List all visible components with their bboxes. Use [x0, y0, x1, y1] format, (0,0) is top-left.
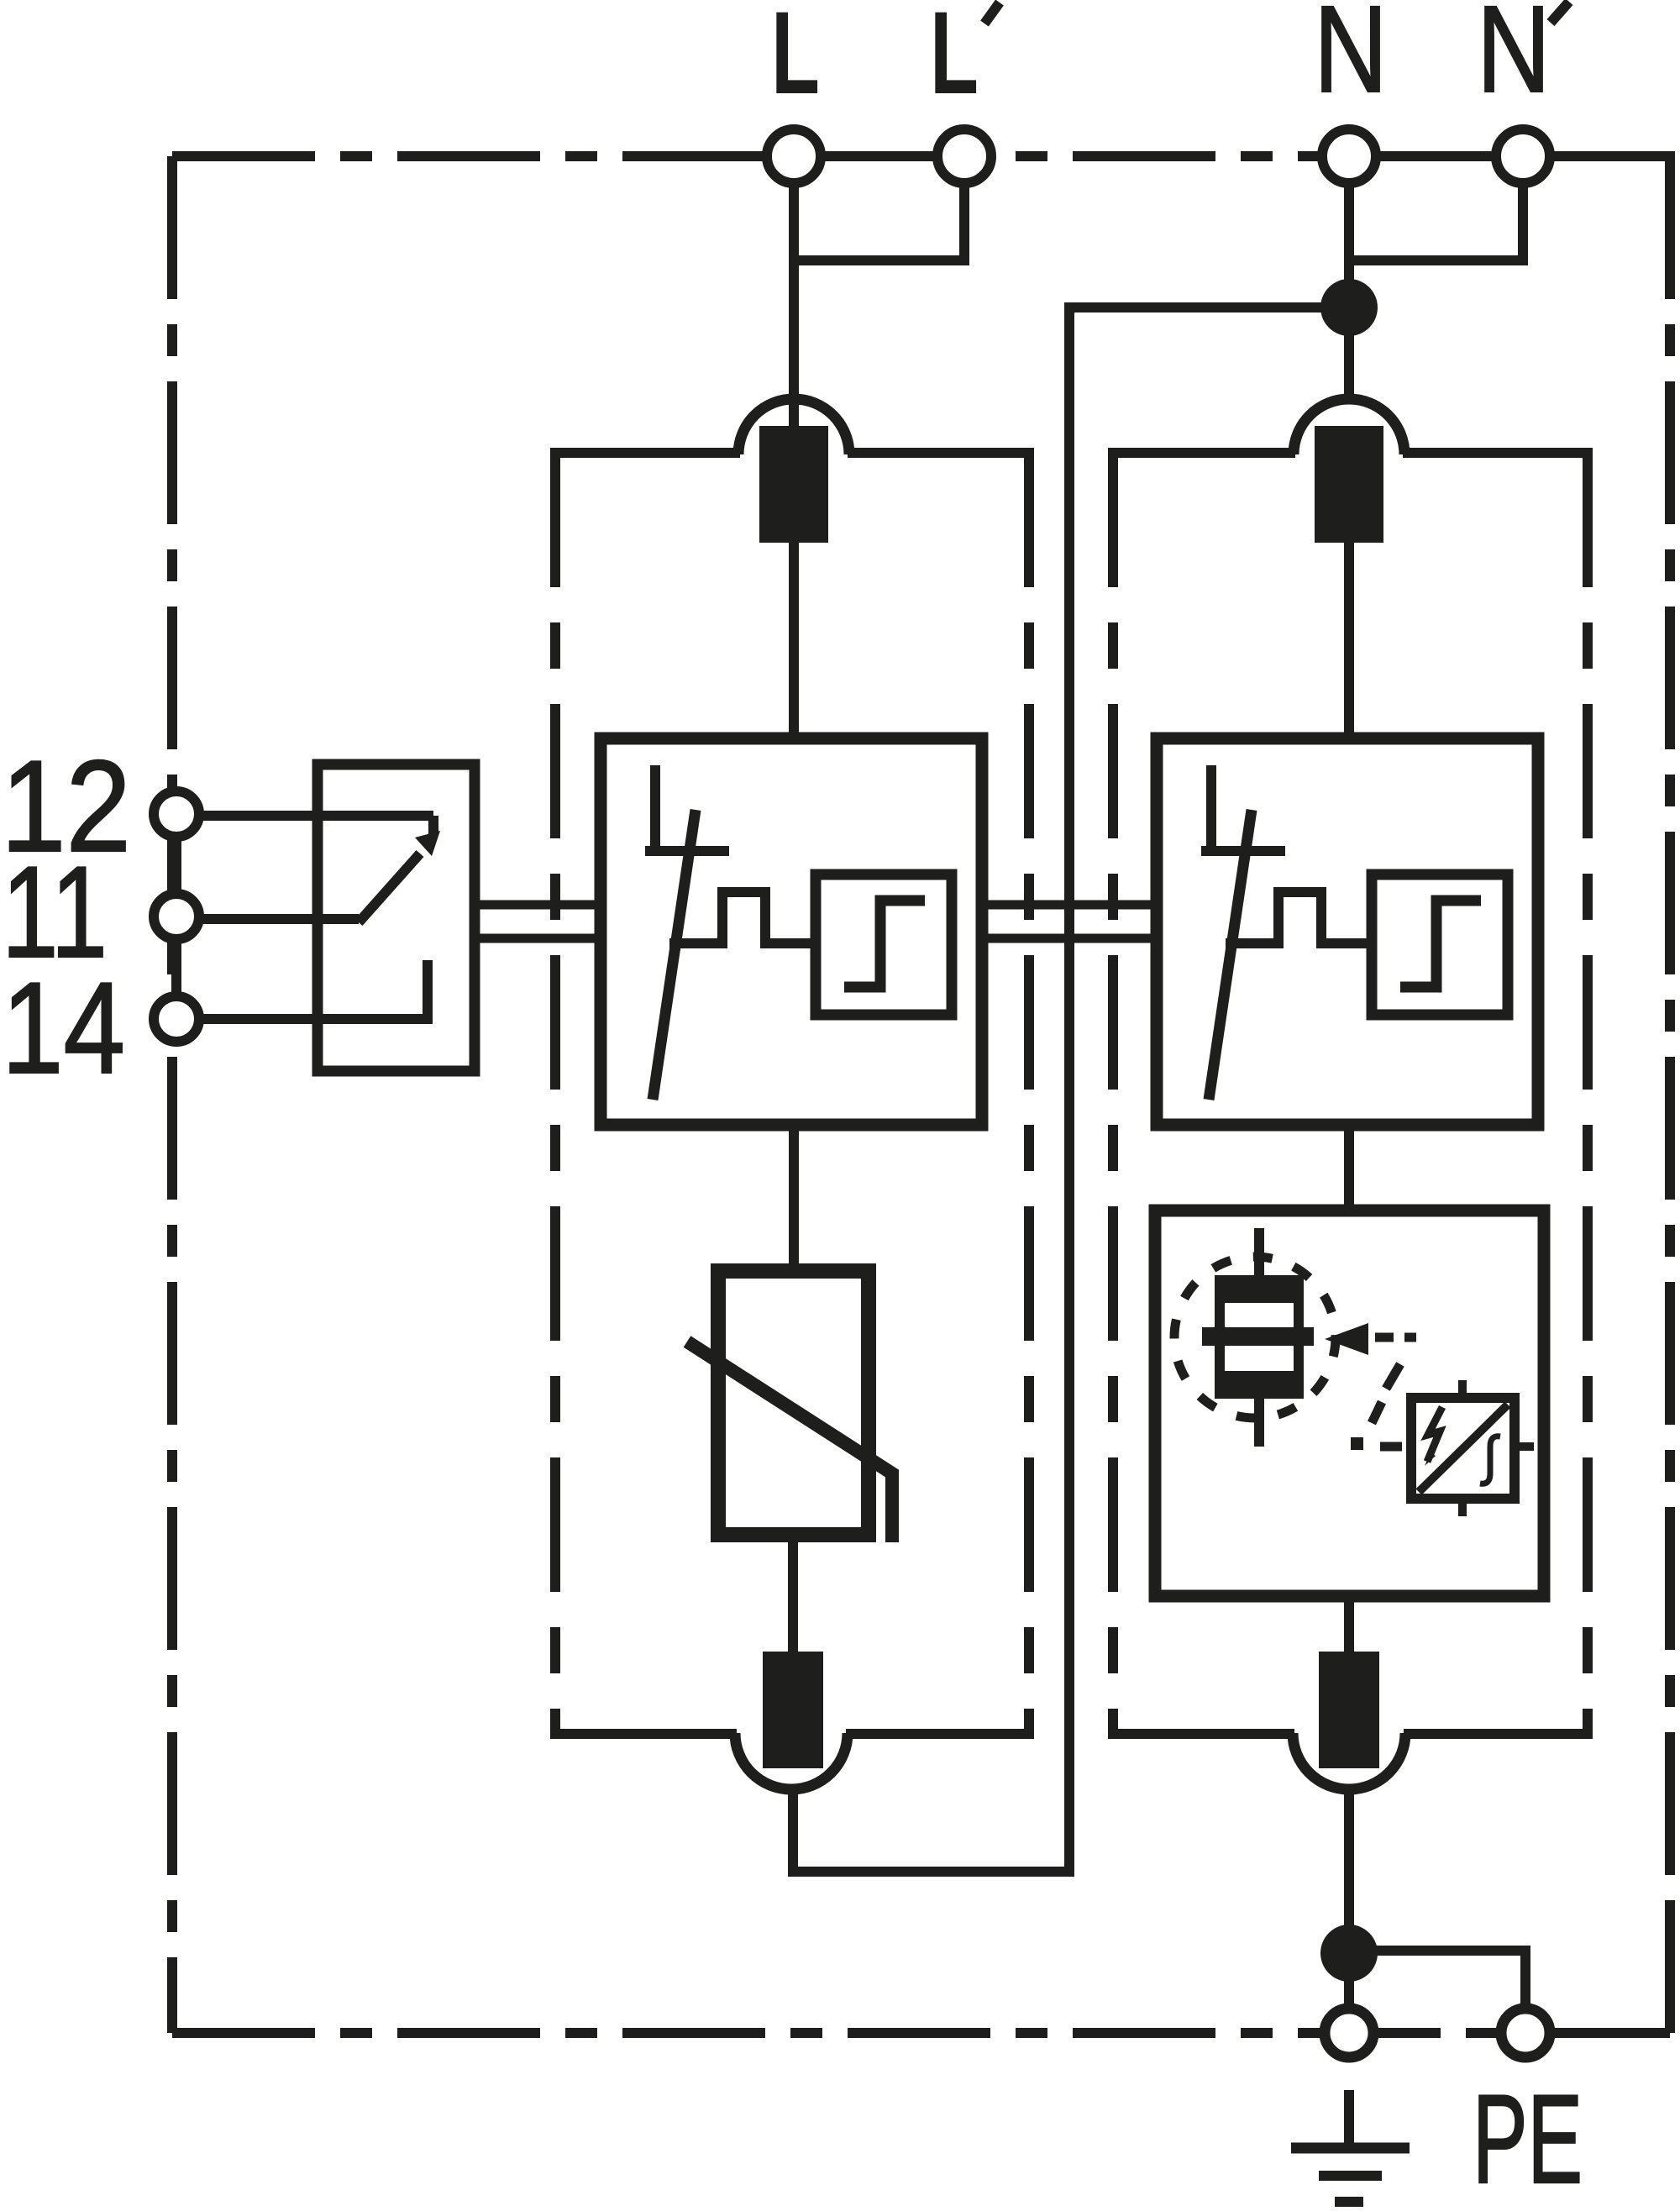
trigger circuit box: [1411, 1380, 1534, 1516]
label 12: [1, 733, 131, 879]
wire bottom contact to PE node: [1344, 1789, 1354, 1957]
right disconnector fixed lead: [1206, 765, 1216, 855]
right plug contact arc bottom: [1293, 1733, 1405, 1789]
terminal N: [1322, 129, 1376, 183]
terminal 14: [154, 996, 199, 1042]
right trigger element box: [1372, 874, 1508, 1015]
right disconnector blade: [1209, 810, 1252, 1100]
svg-text:L: L: [930, 0, 979, 118]
wire left module bottom drop: [788, 1789, 798, 1877]
right plug contact bar top: [1315, 426, 1383, 543]
wire N' bridge: [1349, 156, 1523, 260]
label L': [930, 0, 1000, 118]
terminal L: [767, 129, 821, 183]
link 11-14: [171, 943, 181, 992]
trigger arrow: [1325, 1323, 1368, 1355]
right plug contact arc top: [1294, 399, 1404, 454]
node N junction dot: [1320, 279, 1378, 336]
left trigger element box: [816, 874, 952, 1015]
label N: [1314, 0, 1388, 118]
svg-text:14: 14: [2, 955, 125, 1100]
wire dot to PE terminal: [1344, 1953, 1354, 2009]
trigger dashed path: [1351, 1337, 1416, 1450]
terminal N': [1496, 129, 1550, 183]
wire right rect to switch box: [1344, 538, 1354, 743]
right trigger step glyph: [1400, 901, 1481, 987]
wire spark gap box to bottom contact: [1344, 1596, 1354, 1657]
wire dot to PE' terminal: [1349, 1951, 1525, 2009]
wire L' bridge: [794, 156, 964, 260]
terminal L': [937, 129, 991, 183]
right disconnector tick: [1201, 846, 1285, 856]
left disconnector blade: [653, 810, 696, 1100]
changeover blade arrowhead: [415, 831, 440, 856]
terminal PE ground: [1325, 2009, 1373, 2057]
left trip linkage staircase: [669, 892, 819, 943]
svg-text:L: L: [771, 0, 820, 118]
wire mid vertical: [1064, 302, 1074, 1872]
terminal 12: [154, 791, 199, 837]
label N': [1477, 0, 1569, 118]
label PE: [1473, 2068, 1583, 2209]
wire switch box to varistor: [789, 1125, 799, 1276]
ground symbol: [1291, 2090, 1410, 2202]
right module box: [1108, 453, 1593, 1734]
wire terminal 12: [203, 816, 433, 835]
left module box: [550, 453, 1034, 1734]
enclosure dash-dot border (device outline): [172, 156, 1670, 2033]
wire switch box to spark gap box: [1344, 1125, 1354, 1216]
label 14: [2, 955, 125, 1100]
varistor body: [718, 1271, 869, 1535]
wire left rect to switch box: [789, 538, 799, 743]
changeover contact box: [318, 764, 475, 1071]
left plug contact arc bottom: [735, 1733, 848, 1789]
wire top solid segments on border: [819, 151, 1670, 2033]
left trigger step glyph: [844, 901, 925, 987]
left disconnector tick: [645, 846, 729, 856]
wire varistor to bottom contact: [788, 1535, 798, 1657]
wire terminal 14: [203, 1014, 428, 1024]
link 12-11: [171, 841, 181, 890]
gas discharge tube dashed circle: [1174, 1257, 1336, 1418]
node PE junction dot: [1320, 1925, 1378, 1982]
label 11: [2, 839, 108, 985]
linkage left box to right box: [982, 905, 1157, 938]
linkage contact to left box: [475, 905, 601, 938]
wire terminal 11: [203, 914, 359, 924]
terminal PE': [1501, 2009, 1550, 2057]
label L: [771, 0, 820, 118]
svg-text:PE: PE: [1473, 2068, 1583, 2209]
thermal disconnector box left: [601, 738, 982, 1125]
trigger box impulse glyph: [1480, 1436, 1500, 1484]
left disconnector fixed lead: [650, 765, 660, 855]
svg-text:N: N: [1477, 0, 1551, 118]
trigger box lightning glyph: [1425, 1407, 1442, 1466]
gas discharge tube: [1202, 1228, 1314, 1447]
svg-text:N: N: [1314, 0, 1388, 118]
wire L drop: [789, 156, 799, 430]
spark gap module box: [1155, 1211, 1544, 1596]
right trip linkage staircase: [1226, 892, 1375, 943]
left plug contact bar top: [759, 426, 828, 543]
terminal 11: [154, 894, 199, 939]
changeover blade: [359, 853, 420, 922]
left plug contact bar bottom: [763, 1652, 823, 1768]
wire junction to mid: [1069, 302, 1349, 312]
left plug contact arc top: [738, 399, 849, 454]
wire bottom horizontal to left module: [793, 1867, 1074, 1877]
thermal disconnector box right: [1157, 738, 1538, 1125]
varistor strike: [687, 1342, 892, 1542]
wire N drop: [1344, 156, 1354, 402]
contact 14 fixed bracket: [423, 960, 433, 1024]
right plug contact bar bottom: [1319, 1652, 1379, 1768]
